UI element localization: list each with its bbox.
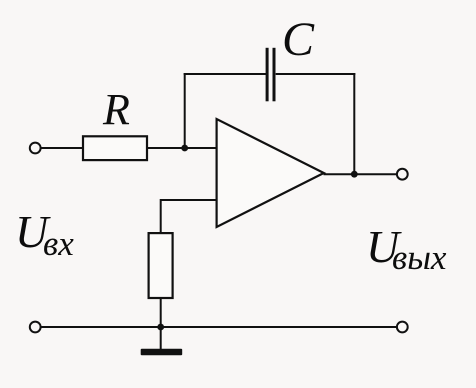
svg-text:вх: вх (43, 224, 74, 263)
wire: input terminal to resistor R (41, 147, 83, 149)
svg-text:вых: вых (392, 238, 447, 277)
wire: non-inverting input vertical to resistor R2 (160, 199, 162, 232)
wire: output of op-amp to output terminal (324, 173, 398, 175)
ground (141, 349, 183, 356)
resistor R (83, 136, 147, 160)
wire: ground stub (160, 327, 162, 349)
wire: resistor R2 to ground rail (160, 299, 162, 327)
resistor R2 (grounding resistor, unlabeled) (149, 233, 173, 298)
label U_vx (input voltage) (15, 206, 74, 263)
node GNDR: bottom-right terminal circle (397, 322, 408, 333)
wire: top feedback, right segment from capacitor (276, 73, 356, 75)
op-amp U1 (217, 119, 324, 227)
wire: non-inverting input horizontal (161, 199, 217, 201)
node Uin: input terminal circle (30, 143, 41, 154)
svg-text:R: R (102, 85, 130, 134)
wire: right vertical feedback drop to output node (353, 73, 355, 174)
node Uout: output terminal circle (397, 169, 408, 180)
label U_vyx (output voltage) (366, 221, 447, 277)
wire: top feedback, left segment to capacitor (184, 73, 267, 75)
wire: bottom ground rail (41, 326, 398, 328)
node C: junction dot on ground rail (157, 324, 164, 331)
svg-text:C: C (282, 13, 315, 66)
node A: junction dot at inverting input (181, 145, 188, 152)
wire: left vertical feedback riser (184, 73, 186, 148)
wire: resistor R to inverting input (through node A) (148, 147, 218, 149)
node GNDL: bottom-left terminal circle (30, 322, 41, 333)
node B: output junction dot (351, 171, 358, 178)
capacitor C (267, 48, 274, 102)
